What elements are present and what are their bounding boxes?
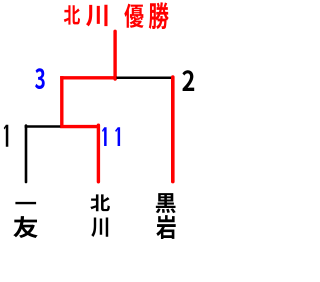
- player 3 riser (red wire, Kuroiwa): [171, 77, 175, 182]
- final connector right half (black wire): [117, 77, 173, 80]
- first-round connector right half (red wire): [60, 125, 100, 128]
- seed number 1 (black): [4, 125, 9, 147]
- champion line (red vertical to title): [113, 31, 116, 79]
- match number 11 (blue): [102, 127, 120, 146]
- player name Ichitomo (black, vertical): [13, 202, 37, 238]
- match number 3 (blue): [35, 68, 45, 89]
- title: winner name Kitagawa (red): [64, 5, 108, 27]
- player name Kuroiwa (black, vertical): [156, 193, 176, 239]
- first-round connector left half (black wire): [25, 125, 62, 128]
- title: championship label (red): [124, 2, 168, 29]
- semifinal winner riser (red wire up from first-round match): [60, 76, 63, 128]
- player name Kitagawa (black, vertical): [90, 194, 109, 237]
- player 2 riser (red wire, Kitagawa): [97, 125, 100, 182]
- seed number 2 (black): [182, 70, 194, 91]
- final connector left half (red wire): [60, 76, 117, 79]
- player 1 riser (black wire, Ichitomo): [25, 126, 28, 183]
